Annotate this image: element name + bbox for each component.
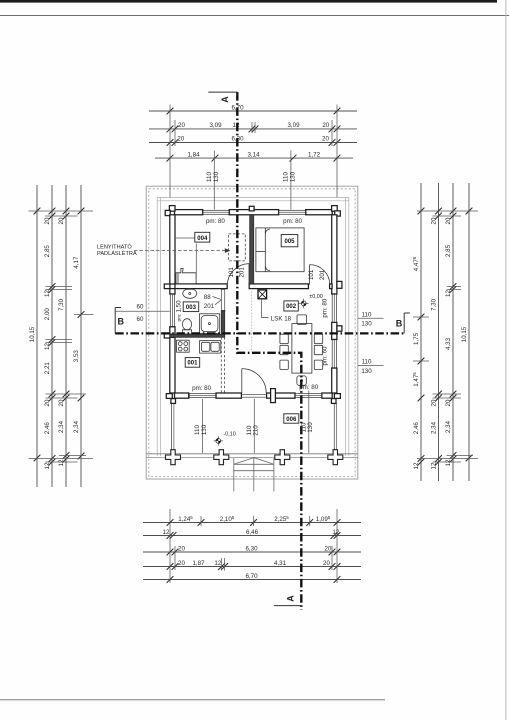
level mark -0,10	[214, 432, 236, 446]
svg-text:20: 20	[323, 560, 330, 567]
entrance door	[242, 369, 266, 393]
exterior wall: right, segment 1	[332, 215, 337, 294]
exterior wall: left, segment 3	[170, 327, 175, 335]
svg-text:20: 20	[430, 217, 437, 224]
exterior wall: left, segment 4	[170, 337, 175, 393]
svg-text:1,75: 1,75	[413, 332, 420, 345]
left dimension column	[29, 185, 94, 487]
window bottom wall kitchen	[189, 393, 216, 398]
svg-text:7,30: 7,30	[430, 298, 437, 311]
svg-text:2,34: 2,34	[445, 420, 452, 433]
svg-text:pm: 80: pm: 80	[299, 384, 318, 391]
corner log-end top-right	[332, 206, 338, 212]
svg-text:20: 20	[325, 546, 332, 553]
svg-text:005: 005	[284, 239, 295, 245]
svg-text:B: B	[118, 317, 125, 327]
svg-text:B: B	[396, 319, 403, 329]
shower tray	[199, 314, 219, 334]
exterior wall: top, segment middle	[229, 210, 278, 215]
exterior wall: top, segment left	[175, 210, 203, 215]
bathroom door (closed leaf)	[221, 289, 225, 310]
svg-text:20: 20	[58, 399, 65, 406]
svg-text:60: 60	[137, 303, 144, 310]
corner log-end top-left	[169, 206, 175, 212]
chimney LSK 18	[258, 290, 267, 299]
svg-text:-0,10: -0,10	[224, 432, 236, 438]
svg-text:6,70: 6,70	[245, 573, 258, 580]
right 110/130 dims upper	[358, 317, 384, 319]
porch column 3	[275, 450, 290, 465]
log-end right at interior wall	[337, 281, 342, 288]
bottom dimension lines	[143, 509, 361, 583]
exterior wall: right, segment 2	[332, 322, 337, 339]
porch column 4	[328, 450, 343, 465]
svg-text:pm: 80: pm: 80	[206, 218, 225, 225]
svg-text:2,00: 2,00	[44, 308, 51, 321]
entrance door sill	[241, 394, 266, 396]
exterior wall: left, segment 2	[170, 289, 175, 294]
window left wall (bathroom)	[170, 294, 175, 327]
svg-text:20: 20	[44, 217, 51, 224]
svg-text:210: 210	[253, 425, 260, 436]
svg-text:2,21: 2,21	[44, 362, 51, 375]
right dim connector lines	[417, 210, 478, 212]
scan artifact: right edge line	[505, 0, 507, 720]
svg-text:2,46: 2,46	[413, 422, 420, 435]
chair head of table	[297, 315, 307, 324]
entrance steps	[234, 458, 274, 492]
scan artifact: top thin line	[0, 14, 509, 16]
svg-text:pm:: pm:	[177, 314, 182, 322]
bed in room 005	[256, 228, 304, 272]
svg-text:20: 20	[445, 217, 452, 224]
svg-text:20: 20	[44, 399, 51, 406]
interior wall horizontal (rooms 004/005 to hall)	[175, 284, 227, 289]
section marker B right	[403, 313, 405, 333]
interior partition wall 004|005	[250, 215, 254, 284]
svg-text:101: 101	[228, 267, 235, 278]
svg-text:60: 60	[137, 316, 144, 323]
washbasin	[183, 289, 197, 299]
window right wall lower	[332, 340, 337, 369]
svg-text:4,31: 4,31	[274, 560, 287, 567]
svg-text:2,85: 2,85	[44, 245, 51, 258]
kitchen dashed partition	[220, 337, 222, 393]
svg-text:3,09: 3,09	[287, 122, 300, 129]
svg-text:130: 130	[307, 422, 314, 433]
exterior wall: left, segment 1	[170, 215, 175, 284]
svg-text:10,15: 10,15	[461, 326, 468, 342]
roof eaves top pair	[157, 196, 349, 198]
svg-text:10,15: 10,15	[29, 326, 36, 342]
window right wall upper	[332, 294, 337, 322]
svg-text:3,09: 3,09	[209, 122, 222, 129]
bottom window leaders and size texts	[201, 399, 203, 453]
window top-right W2	[279, 210, 306, 215]
room label 003	[183, 302, 199, 312]
svg-text:130: 130	[213, 171, 220, 182]
svg-text:1,245: 1,245	[178, 515, 193, 523]
svg-text:110: 110	[362, 312, 372, 319]
LSK 18 leader and text	[262, 299, 269, 318]
svg-text:004: 004	[197, 236, 208, 242]
log-end left at bathroom wall	[164, 334, 170, 338]
svg-text:LENYITHATÓ: LENYITHATÓ	[97, 244, 132, 251]
porch side rail left	[171, 403, 173, 450]
svg-text:12: 12	[163, 529, 170, 536]
level mark +-0,00	[299, 294, 323, 308]
svg-text:±0,00: ±0,00	[309, 294, 322, 300]
svg-text:12: 12	[44, 290, 51, 297]
svg-text:2,34: 2,34	[58, 420, 65, 433]
svg-text:2,46: 2,46	[44, 422, 51, 435]
svg-text:7,30: 7,30	[58, 298, 65, 311]
section line A (jogged)	[237, 92, 301, 610]
svg-text:12: 12	[58, 459, 65, 466]
svg-text:12: 12	[413, 462, 420, 469]
svg-text:130: 130	[361, 321, 372, 328]
roof eaves right pair	[344, 197, 346, 456]
svg-text:4,475: 4,475	[412, 256, 420, 271]
svg-text:20: 20	[178, 546, 185, 553]
svg-text:6,30: 6,30	[245, 546, 258, 553]
svg-text:130: 130	[290, 171, 297, 182]
corner log-end bottom-right	[334, 394, 340, 399]
svg-text:130: 130	[201, 424, 208, 435]
svg-text:20: 20	[322, 122, 329, 129]
svg-text:12: 12	[214, 560, 221, 567]
svg-text:1,84: 1,84	[187, 151, 200, 158]
svg-text:201: 201	[319, 269, 326, 280]
svg-text:1,475: 1,475	[412, 372, 420, 387]
scan artifact: top black bar	[0, 0, 497, 3]
exterior wall: bottom segments	[175, 393, 189, 398]
svg-text:2,34: 2,34	[73, 420, 80, 433]
bottom dim extension verticals	[169, 509, 171, 583]
svg-text:12: 12	[445, 459, 452, 466]
porch column 2	[214, 450, 229, 465]
porch side rail right	[333, 403, 335, 450]
room label 004	[175, 232, 210, 279]
right 110/130 dims lower	[358, 364, 384, 366]
svg-text:3,53: 3,53	[73, 350, 80, 363]
svg-text:12: 12	[332, 529, 339, 536]
section line B	[115, 332, 404, 334]
log-end right near section B	[337, 326, 342, 331]
svg-text:12: 12	[445, 290, 452, 297]
window bottom wall living	[295, 393, 322, 398]
chairs left	[280, 334, 288, 369]
top dim extension verticals	[169, 105, 171, 198]
section marker A bottom	[274, 605, 302, 607]
svg-text:2,255: 2,255	[274, 515, 289, 523]
svg-text:6,46: 6,46	[246, 529, 259, 536]
svg-text:1,72: 1,72	[308, 151, 321, 158]
svg-text:12: 12	[430, 462, 437, 469]
dining table	[292, 324, 312, 374]
bathroom right wall	[221, 289, 225, 290]
exterior wall: right, segment 3	[332, 368, 337, 393]
svg-text:1,095: 1,095	[316, 515, 331, 523]
svg-text:201: 201	[238, 267, 245, 278]
bench in room 004	[176, 268, 196, 284]
room label 006	[284, 414, 299, 423]
attic ladder dashed outline	[229, 234, 246, 261]
svg-text:130: 130	[361, 368, 372, 375]
svg-text:20: 20	[178, 560, 185, 567]
svg-text:2,105: 2,105	[220, 515, 235, 523]
kitchen sink	[200, 341, 221, 354]
svg-text:2,85: 2,85	[445, 244, 452, 257]
svg-text:20: 20	[445, 399, 452, 406]
svg-text:110: 110	[362, 359, 372, 366]
svg-text:A: A	[286, 595, 296, 602]
svg-text:1,87: 1,87	[192, 560, 205, 567]
porch column 1	[166, 450, 181, 465]
exterior wall: top, segment right	[306, 210, 333, 215]
svg-text:12: 12	[44, 343, 51, 350]
svg-text:003: 003	[186, 305, 197, 311]
svg-text:20: 20	[178, 122, 185, 129]
site boundary solid rect	[146, 186, 358, 479]
svg-text:4,33: 4,33	[445, 337, 452, 350]
door room 005	[310, 265, 330, 285]
svg-text:12: 12	[44, 462, 51, 469]
svg-text:4,17: 4,17	[73, 256, 80, 269]
toilet	[182, 319, 191, 334]
svg-text:006: 006	[286, 417, 297, 423]
svg-text:pm: 80: pm: 80	[322, 298, 329, 317]
room label 001	[185, 358, 200, 368]
log-end left at interior wall	[164, 284, 170, 289]
svg-text:002: 002	[286, 304, 297, 310]
left dim connector lines	[29, 210, 94, 212]
svg-text:001: 001	[187, 361, 198, 367]
attic ladder leader dashed arrow	[134, 250, 226, 252]
svg-text:pm: 80: pm: 80	[192, 385, 211, 392]
svg-text:2,34: 2,34	[430, 421, 437, 434]
left 60/60 dims	[116, 310, 170, 312]
svg-text:201: 201	[204, 303, 215, 310]
top dimension lines	[149, 104, 357, 209]
porch deck edge lines	[146, 453, 358, 455]
site boundary dashed rect	[149, 189, 355, 477]
svg-text:101: 101	[308, 269, 315, 280]
dotted room boundary below partition	[251, 289, 253, 353]
svg-text:20: 20	[177, 136, 184, 143]
section marker B left	[114, 308, 116, 334]
door room 004	[227, 264, 249, 286]
room label 005	[281, 235, 298, 247]
roof eaves left pair	[156, 197, 158, 456]
window top-left W1	[203, 210, 230, 215]
section marker A top	[208, 92, 237, 96]
chairs right	[314, 334, 322, 369]
scan artifact: bottom thin line	[0, 699, 385, 701]
svg-text:88: 88	[204, 294, 211, 301]
log-end at partition top	[249, 206, 254, 211]
svg-text:20: 20	[58, 217, 65, 224]
room label 002	[284, 301, 298, 311]
log-end cross on bottom wall	[271, 389, 276, 403]
svg-text:LSK 18: LSK 18	[271, 315, 292, 322]
svg-text:3,14: 3,14	[247, 151, 260, 158]
stove	[177, 340, 190, 352]
svg-text:pm: 60: pm: 60	[322, 346, 329, 365]
right dimension column	[412, 183, 478, 481]
bathroom bottom wall	[170, 334, 225, 337]
chair foot of table	[297, 376, 306, 385]
svg-text:20: 20	[322, 136, 329, 143]
corner log-end bottom-left	[166, 394, 172, 399]
svg-text:A: A	[220, 96, 230, 103]
svg-text:1,50: 1,50	[175, 300, 182, 313]
svg-text:PADLÁSLÉTRA: PADLÁSLÉTRA	[97, 250, 137, 257]
svg-text:20: 20	[430, 399, 437, 406]
svg-text:pm: 80: pm: 80	[283, 218, 302, 225]
